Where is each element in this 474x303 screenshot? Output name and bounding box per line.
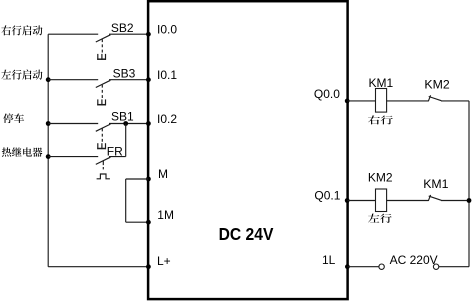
label 停车: [3, 113, 24, 123]
wire: [48, 156, 98, 158]
svg-text:L+: L+: [157, 254, 171, 268]
bus junction row 2: [46, 77, 51, 82]
svg-text:KM1: KM1: [423, 177, 448, 191]
wire left vertical bus: [47, 34, 49, 267]
wire: [387, 200, 429, 202]
wire: [48, 79, 98, 81]
bus junction row 3: [46, 121, 51, 126]
wire: [348, 266, 379, 268]
push button actuator SB1: [97, 129, 106, 150]
wire: [48, 123, 98, 125]
relay coil KM2: [376, 189, 387, 212]
svg-text:M: M: [158, 167, 168, 181]
PLC box U1: [148, 1, 348, 299]
svg-text:SB2: SB2: [111, 21, 134, 35]
terminal I0.1 junction: [146, 77, 151, 82]
svg-text:1M: 1M: [157, 208, 174, 222]
wire: [109, 123, 148, 125]
terminal 1M junction: [146, 220, 151, 225]
wire: [439, 266, 469, 268]
NC interlock contact KM1: [428, 195, 441, 201]
svg-text:SB1: SB1: [111, 109, 134, 123]
label 左行: [368, 214, 392, 223]
wire right vertical bus: [468, 101, 470, 267]
svg-text:I0.2: I0.2: [157, 112, 177, 126]
label 右行启动: [1, 25, 42, 35]
wire: [387, 100, 429, 102]
wire M-1M jumper: [125, 179, 127, 222]
push button SB3 contact arm: [96, 80, 111, 87]
push button SB2 contact arm: [96, 35, 111, 42]
junction right bus Q0.1: [467, 198, 472, 203]
svg-text:AC 220V: AC 220V: [390, 253, 438, 267]
label 热继电器: [2, 147, 43, 157]
svg-text:I0.1: I0.1: [157, 68, 177, 82]
thermal relay actuator FR: [97, 161, 110, 179]
svg-text:SB3: SB3: [113, 66, 136, 80]
wire 1M row: [126, 221, 148, 223]
svg-text:I0.0: I0.0: [157, 23, 177, 37]
wire: [441, 200, 469, 202]
terminal Q0.0 junction: [345, 99, 350, 104]
svg-text:Q0.1: Q0.1: [314, 188, 340, 202]
push button SB1 contact arm: [96, 124, 111, 131]
svg-text:DC 24V: DC 24V: [219, 224, 274, 244]
thermal relay FR contact arm: [96, 157, 111, 164]
svg-text:FR: FR: [107, 145, 123, 159]
svg-text:KM1: KM1: [369, 76, 394, 90]
wire: [441, 100, 469, 102]
AC supply terminal right: [433, 264, 438, 269]
label 右行: [368, 115, 393, 124]
terminal M junction: [146, 177, 151, 182]
svg-text:KM2: KM2: [368, 170, 393, 184]
relay coil KM1: [376, 89, 387, 113]
wire: [109, 79, 148, 81]
wire: [348, 200, 376, 202]
svg-text:1L: 1L: [322, 253, 336, 267]
label 左行启动: [1, 70, 42, 80]
terminal 1L junction: [345, 264, 350, 269]
svg-text:Q0.0: Q0.0: [314, 87, 340, 101]
wire M row: [126, 178, 148, 180]
wire: [109, 156, 126, 158]
push button actuator SB3: [97, 85, 106, 106]
terminal Q0.1 junction: [345, 198, 350, 203]
wire: [109, 33, 148, 35]
junction node SB1/FR: [123, 121, 128, 126]
NC interlock contact KM2: [428, 95, 441, 101]
terminal I0.2 junction: [146, 121, 151, 126]
wire FR output to SB1 node: [125, 124, 127, 157]
terminal I0.0 junction: [146, 32, 151, 37]
svg-text:KM2: KM2: [424, 77, 449, 91]
wire: [48, 33, 98, 35]
push button actuator SB2: [97, 39, 106, 60]
wire: [348, 100, 376, 102]
wire L+ row: [48, 266, 148, 268]
terminal L+ junction: [146, 264, 151, 269]
bus junction row 4: [46, 154, 51, 159]
AC supply terminal left: [379, 264, 384, 269]
